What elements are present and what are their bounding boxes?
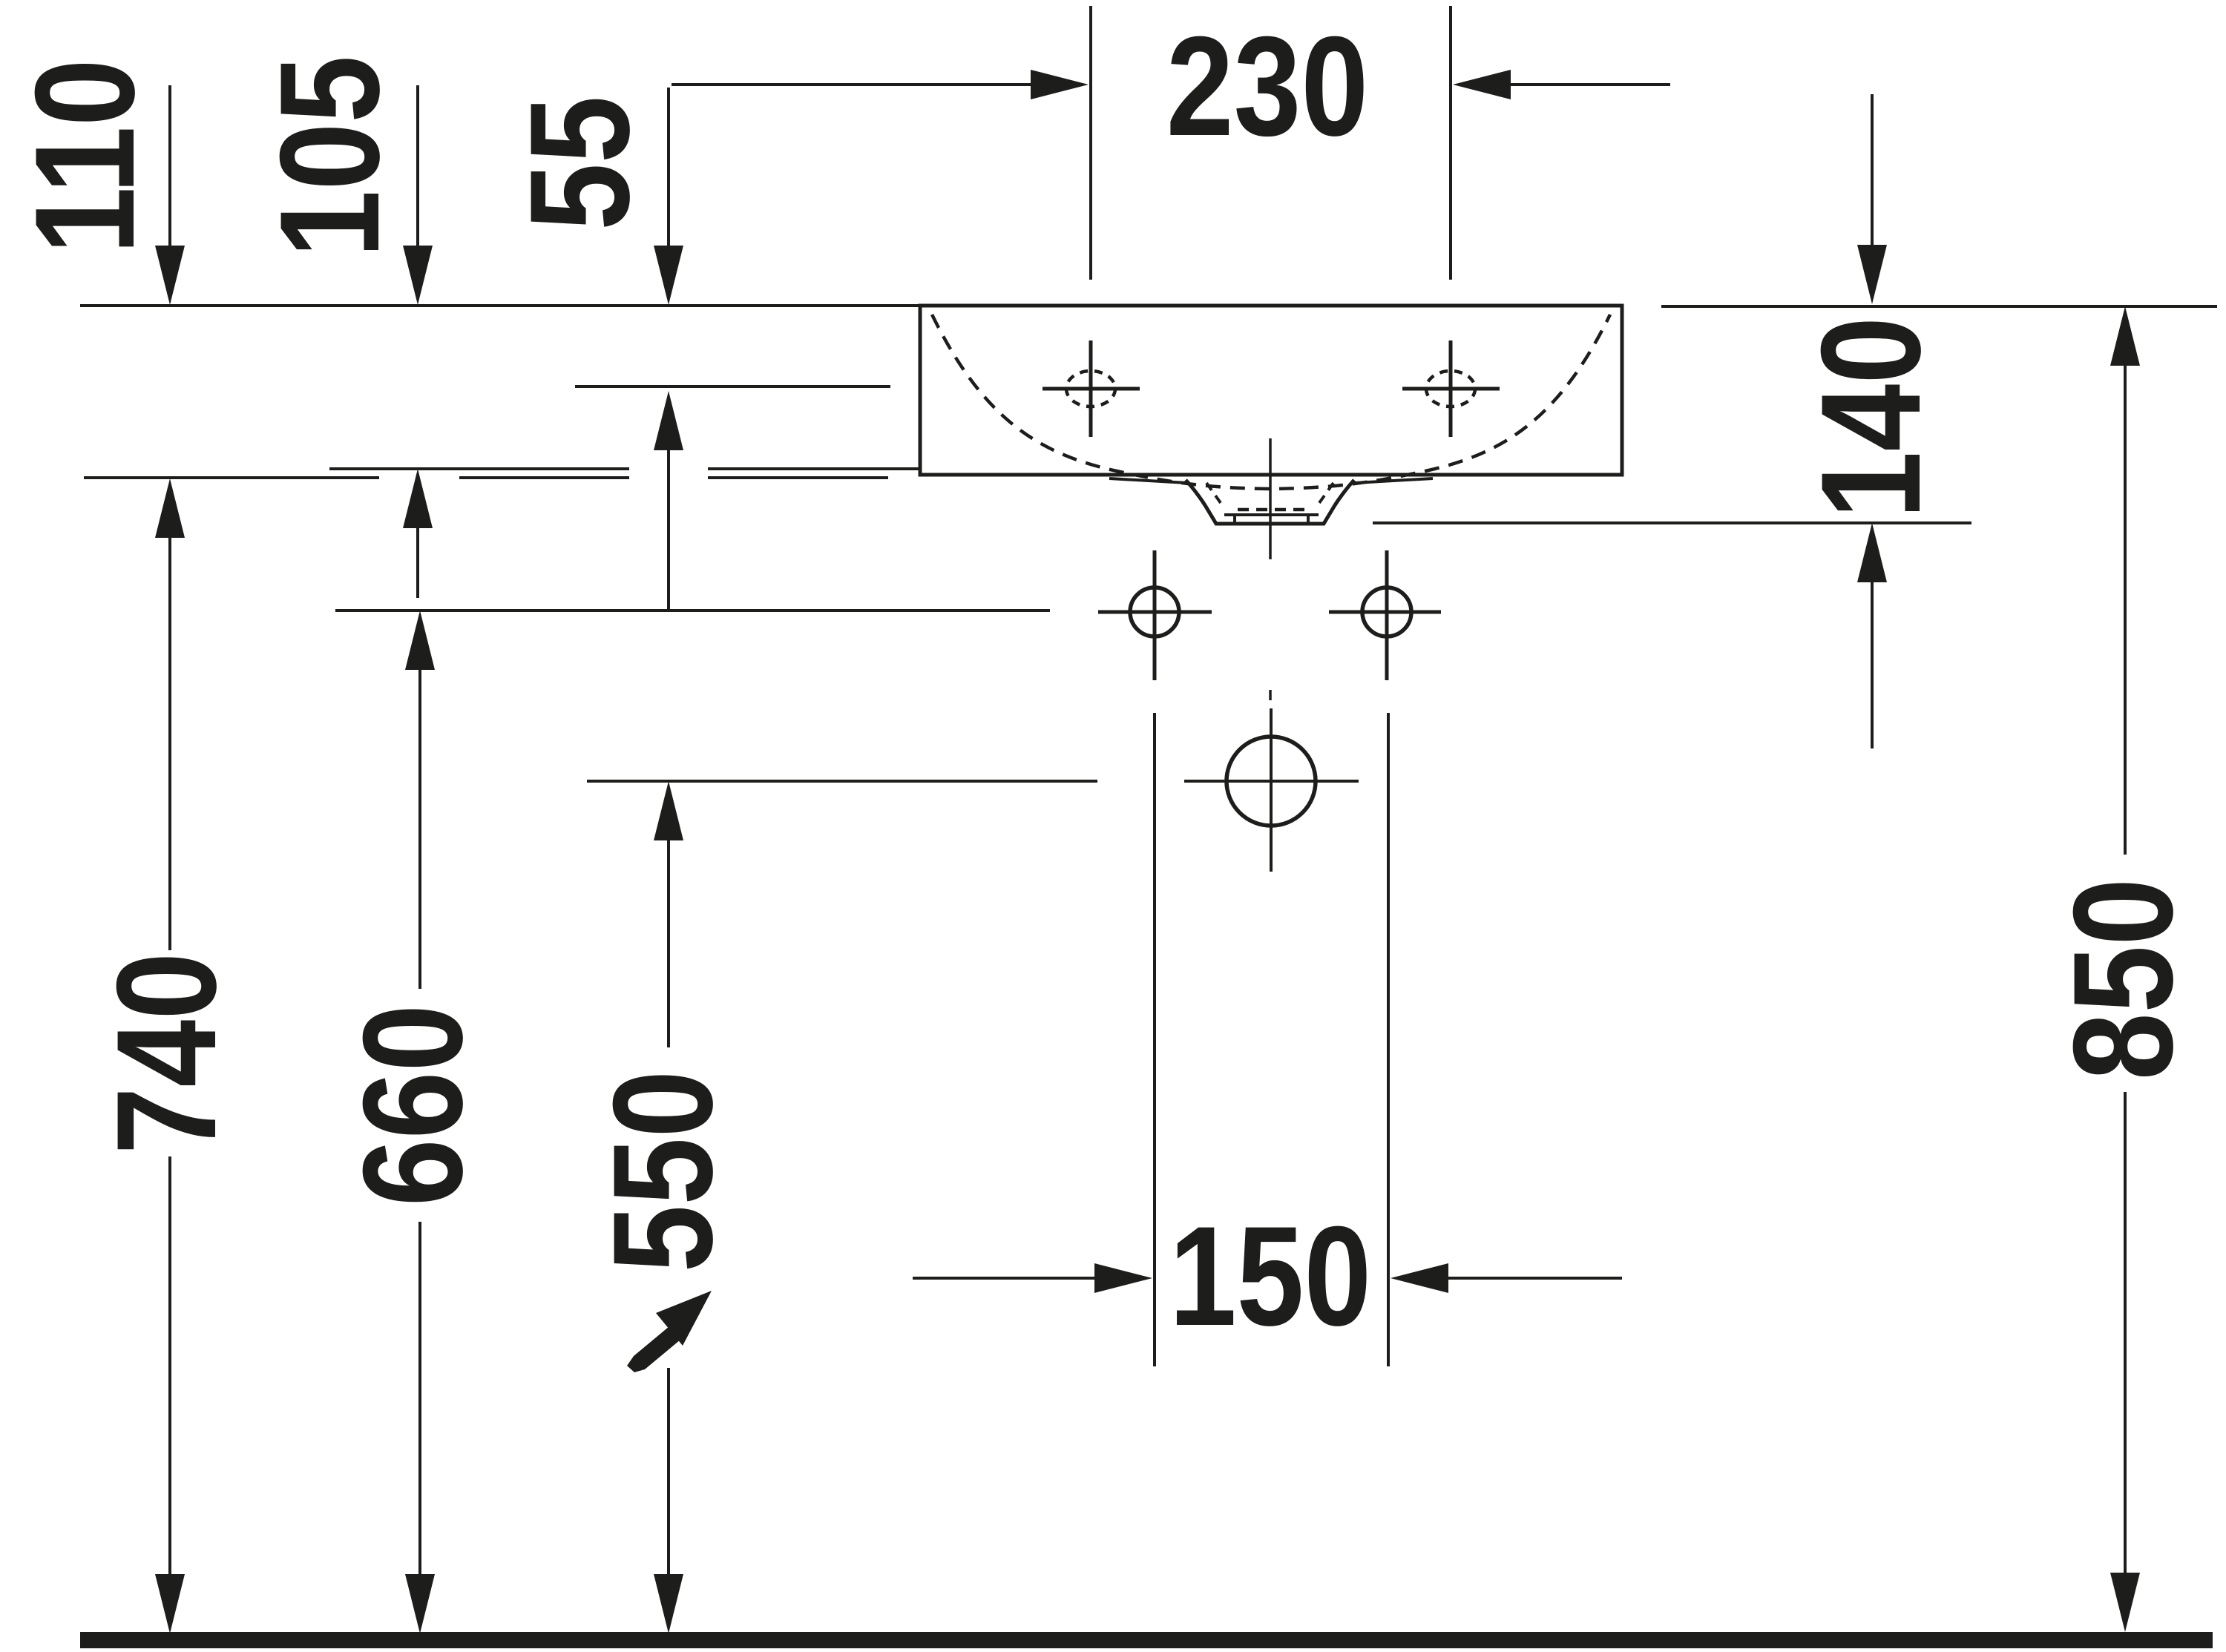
svg-text:55: 55 <box>500 96 659 231</box>
svg-text:550: 550 <box>583 1070 742 1272</box>
svg-text:660: 660 <box>333 1004 492 1206</box>
svg-text:140: 140 <box>1791 317 1950 519</box>
svg-text:740: 740 <box>87 952 246 1154</box>
svg-text:105: 105 <box>250 56 409 257</box>
svg-text:110: 110 <box>5 59 164 254</box>
svg-text:850: 850 <box>2043 878 2202 1080</box>
svg-text:150: 150 <box>1169 1197 1371 1355</box>
svg-text:230: 230 <box>1166 7 1368 165</box>
